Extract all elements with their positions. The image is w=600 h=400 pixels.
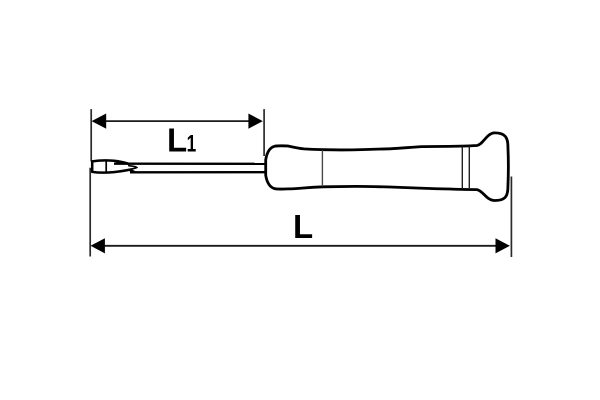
dimension L: left arrowhead [91,238,105,253]
handle cap double line 2 [468,146,470,189]
dimension L1: right arrowhead [248,114,262,129]
dimension L: dimension line [99,245,501,247]
shaft top line [114,162,266,165]
handle cap double line 1 [461,146,463,189]
dimension L: right arrowhead [496,238,510,253]
handle outline (collar, grip body, end cap) [266,133,509,201]
dimension L1: left extension line [90,109,92,161]
handle neck/body section line [321,150,323,186]
screwdriver blade (flat tip) outline [92,160,135,172]
blade tip facet line [105,161,107,172]
svg-text:L: L [167,122,187,159]
blade-shaft junction chevron [129,166,137,170]
dimension L1: left arrowhead [92,114,107,129]
svg-text:1: 1 [187,131,197,157]
dimension L: left extension line [89,168,91,257]
dimension L1: dimension line [100,120,255,122]
dimension L: right extension line [510,177,512,258]
dimension L1: right extension line [263,109,265,156]
svg-text:L: L [293,208,313,245]
shaft bottom line [130,171,266,174]
